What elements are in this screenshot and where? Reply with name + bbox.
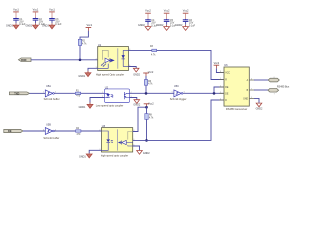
resistor R3 [150,46,157,57]
U1 isolation divider [117,48,119,68]
op-amp U5B (schmitt buffer) [43,124,59,140]
port RXD [18,58,31,62]
svg-text:0.1uF: 0.1uF [189,24,196,27]
svg-text:GND1: GND1 [78,75,85,78]
svg-text:Vcc1: Vcc1 [49,7,55,11]
wire TXD to buffer U5A [30,92,46,94]
wire Vcc2 to C4 [147,18,149,21]
port TXD [9,92,29,95]
svg-text:6: 6 [251,78,252,80]
power port Vcc2 (cap C5) [164,9,170,19]
resistor R2 [78,39,87,45]
U6 pin RO [219,79,227,81]
resistor R4 [76,128,81,136]
svg-text:DE: DE [8,130,12,133]
svg-text:7: 7 [251,88,252,90]
power port Vcc1 (cap C3) [49,7,55,17]
svg-text:2: 2 [220,85,221,87]
U3 isolation divider [117,129,119,150]
capacitor C2 [33,18,46,26]
svg-text:0.1uF: 0.1uF [55,23,62,26]
U2 internal phototransistor [124,92,129,99]
U3 internal photodetector [118,132,133,147]
wire C1 to ground [15,20,17,23]
wire R4 to U3 [81,130,102,132]
svg-text:GND1: GND1 [26,24,33,27]
svg-text:RE: RE [225,87,229,89]
U1 internal phototransistor [98,50,114,68]
U6 pin RE [219,87,229,89]
wire Vcc2 to C6 [185,18,187,21]
svg-text:GND1: GND1 [42,24,49,27]
node DE/RE junction [213,92,216,95]
svg-text:Vcc1: Vcc1 [13,7,19,11]
svg-text:GND2: GND2 [133,74,140,77]
U3 internal LED [102,131,114,150]
power port Vcc1 (cap C1) [13,7,19,17]
U6 pin GND [243,98,254,100]
svg-text:TXD: TXD [14,92,19,95]
svg-text:U2: U2 [105,85,109,89]
svg-text:5: 5 [172,92,173,94]
svg-text:high speed opto coupler: high speed opto coupler [101,153,128,157]
svg-text:Vcc2: Vcc2 [148,70,154,74]
wire DE to buffer U5B [23,130,45,132]
wire U2 emitter to GND2 [130,98,137,100]
node R8 output junction [145,139,148,142]
wire U6 A to port [254,79,269,81]
wire R8 to output junction [146,119,148,140]
capacitor C6 [183,19,196,27]
port B (RS485 bus) [268,88,279,92]
svg-text:RS485 transceiver: RS485 transceiver [226,107,247,111]
wire junction to R2 [79,45,81,59]
svg-text:1: 1 [220,78,221,80]
svg-text:U5A: U5A [46,85,51,88]
wire R2 to Vcc1 [80,31,88,40]
svg-text:Low speed opto coupler: Low speed opto coupler [96,103,124,107]
svg-text:U5B: U5B [46,124,51,127]
wire Vcc1 to C2 [35,17,37,20]
wire RXD to U1 [31,59,105,61]
wire U6 B to port [254,89,268,91]
svg-text:GND2: GND2 [176,24,183,27]
ground GND1 (under U3) [79,153,92,158]
U2 pin numbers [102,92,132,98]
svg-text:RXD: RXD [21,59,26,62]
wire U1 pin to GND2 [128,67,136,69]
wire C6 to ground [185,21,187,24]
optocoupler U3 (high speed) [101,124,133,157]
ground GND2 (right of U1) [133,68,140,76]
svg-text:RS485 Bus: RS485 Bus [277,86,290,89]
svg-text:GND2: GND2 [256,107,263,110]
capacitor C4 [145,19,158,27]
svg-text:Schmitt buffer: Schmitt buffer [44,97,60,101]
optocoupler U2 (low speed) [96,85,130,107]
svg-text:DE: DE [225,93,229,95]
wire C5 to ground [166,21,168,24]
svg-text:GND2: GND2 [143,152,150,155]
U2 internal LED [105,93,114,97]
wire Vcc2 to C5 [166,18,168,21]
svg-text:7: 7 [274,94,275,96]
svg-text:GND2: GND2 [133,104,140,107]
wire R6 to Vcc2 [145,76,147,80]
svg-text:Vcc2: Vcc2 [164,9,170,13]
ground GND2 (under C4) [138,24,151,31]
U6 pin A [247,79,254,82]
svg-text:U3: U3 [102,124,106,128]
resistor R8 [145,114,154,120]
wire R3 to U6 RO pin [157,50,224,79]
wire Vcc2 to U6 VCC pin [216,68,224,72]
wire U2 cathode to GND1 [90,98,105,103]
ground GND2 (right of U3) [137,151,151,156]
wire U5C to U6 DE pin [183,92,224,94]
svg-text:GND2: GND2 [157,24,164,27]
svg-text:GND1: GND1 [79,106,86,109]
svg-text:3: 3 [43,129,44,131]
wire Vcc2 feed to U3 vcc pin [133,107,147,131]
svg-text:GND: GND [243,98,248,100]
svg-text:3: 3 [220,92,221,94]
capacitor C3 [49,18,62,26]
ground GND1 (under U1) [78,71,90,78]
ground GND1 (under C3) [42,24,55,28]
wire Vcc2 junction to R8 [146,106,148,113]
power port Vcc2 (U6 supply) [214,61,220,69]
svg-text:Schmitt trigger: Schmitt trigger [170,97,187,101]
ground GND2 (under C5) [157,24,170,31]
node R2 junction [79,59,82,62]
ground GND1 (under C2) [26,24,39,28]
wire C3 to ground [51,20,53,23]
IC U6 (RS485 transceiver) [219,63,254,111]
svg-text:8: 8 [220,71,221,73]
U6 pin B [247,90,254,92]
U3 pin numbers [99,130,134,151]
svg-text:Vcc2: Vcc2 [148,102,154,106]
svg-text:Vcc1: Vcc1 [86,23,92,27]
power port Vcc2 (cap C6) [183,9,189,19]
svg-text:VCC: VCC [225,72,230,74]
node Vcc2 junction [145,106,148,109]
wire C4 to ground [147,21,149,24]
wire U1 output to R3 [128,49,151,51]
op-amp U5A (schmitt buffer) [43,85,60,101]
U1 pin numbers [96,49,131,69]
wire U3 cathode to GND1 [89,150,101,153]
svg-text:Vcc2: Vcc2 [183,9,189,13]
ground GND1 (under U2) [79,103,93,110]
wire junction to RE pin [214,87,224,93]
wire junction to R6 [145,85,147,93]
wire U1 cathode to GND1 [88,68,98,71]
capacitor C5 [164,19,177,27]
ground GND2 (under U2 right) [133,100,140,107]
svg-text:High speed Opto coupler: High speed Opto coupler [96,73,124,77]
optocoupler U1 (high speed) [96,43,128,77]
U6 pin DI [219,100,227,102]
svg-text:GND1: GND1 [79,156,86,159]
svg-text:1: 1 [43,92,44,94]
svg-text:U5C: U5C [174,85,179,88]
capacitor C1 [13,18,26,26]
svg-text:GND1: GND1 [6,24,13,27]
svg-text:5: 5 [251,97,252,99]
power port Vcc2 (pull-up R8) [144,102,155,107]
wire U3 gnd pin to GND2 [133,146,140,151]
op-amp U5C (schmitt trigger) [170,85,187,101]
wire U6 GND to GND2 [254,98,259,103]
U6 pin numbers [220,71,275,101]
ground GND2 (under C6) [176,24,189,31]
wire C2 to ground [35,20,37,23]
power port Vcc1 (pull-up R2) [86,23,93,31]
svg-text:Vcc1: Vcc1 [33,7,39,11]
resistor R6 [144,80,153,86]
svg-text:Vcc2: Vcc2 [214,61,220,65]
svg-text:1: 1 [102,92,103,94]
U6 pin VCC [219,72,230,74]
ground GND2 (under U6) [256,103,263,110]
svg-text:2: 2 [96,58,97,60]
node R6 junction [145,92,148,95]
U6 pin DE [219,93,229,95]
wire U2 output to U5C [130,92,174,94]
svg-text:GND2: GND2 [138,24,145,27]
svg-text:4: 4 [220,98,221,100]
resistor R1 [75,90,80,97]
svg-text:U6: U6 [224,63,228,67]
svg-text:Vcc2: Vcc2 [145,9,151,13]
port DE [4,129,23,133]
port A (RS485 bus) [268,78,279,82]
wire U5B to R4 [54,130,75,132]
power port Vcc2 (cap C4) [145,9,151,19]
wire R1 to U2 [81,92,105,94]
U1 internal LED [122,50,129,66]
ground GND1 (under C1) [6,24,19,28]
power port Vcc1 (cap C2) [33,7,39,17]
power port Vcc2 (pull-up R6) [143,70,154,76]
svg-text:U1: U1 [98,43,102,47]
wire U3 output to U6 DI pin [133,100,224,140]
wire Vcc1 to C3 [51,17,53,20]
wire U5A to R1 [54,92,75,94]
wire Vcc1 to C1 [15,17,17,20]
svg-text:Schmitt buffer: Schmitt buffer [43,136,59,140]
svg-text:2: 2 [99,130,100,132]
